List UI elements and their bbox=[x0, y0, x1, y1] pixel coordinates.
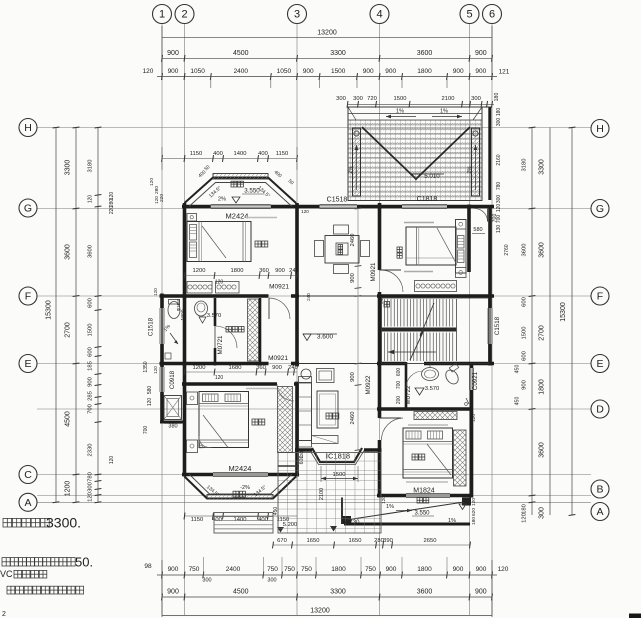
svg-text:180: 180 bbox=[494, 93, 500, 102]
svg-text:1200: 1200 bbox=[193, 268, 206, 274]
svg-text:120: 120 bbox=[381, 496, 386, 504]
svg-text:1%: 1% bbox=[448, 518, 456, 524]
terrace right pillar bbox=[472, 128, 480, 196]
bedroom2 bed bbox=[406, 227, 456, 265]
row axis H bbox=[37, 127, 591, 129]
svg-text:900: 900 bbox=[350, 372, 356, 382]
svg-text:720: 720 bbox=[367, 96, 377, 102]
grid bubble A right bbox=[591, 503, 609, 521]
svg-text:2160: 2160 bbox=[496, 154, 502, 165]
svg-text:1800: 1800 bbox=[231, 268, 244, 274]
grid bubble G left bbox=[19, 199, 37, 217]
bottom bedroom dresser strip bbox=[414, 412, 457, 420]
terrace top band bbox=[348, 113, 482, 115]
hall TV cabinet bbox=[312, 436, 339, 444]
row axis A bbox=[37, 501, 591, 503]
wall row D bbox=[377, 407, 472, 411]
svg-text:900: 900 bbox=[475, 50, 487, 57]
svg-text:3600: 3600 bbox=[417, 50, 433, 57]
svg-text:1650: 1650 bbox=[349, 538, 362, 544]
svg-text:G: G bbox=[596, 203, 604, 215]
svg-text:M2424: M2424 bbox=[226, 212, 249, 221]
row axis C bbox=[37, 474, 591, 476]
svg-text:180: 180 bbox=[471, 517, 477, 525]
bedroom1 nightstand bbox=[187, 214, 197, 222]
svg-text:E: E bbox=[596, 358, 603, 370]
svg-text:900: 900 bbox=[363, 68, 374, 75]
svg-text:900: 900 bbox=[167, 589, 179, 596]
svg-text:M0922: M0922 bbox=[365, 375, 372, 394]
master bed bbox=[199, 392, 249, 448]
column axis 6 bbox=[491, 24, 493, 615]
label canting dining bbox=[338, 245, 343, 250]
svg-text:400: 400 bbox=[213, 151, 223, 157]
door master bedroom arc bbox=[277, 384, 294, 401]
window C1518 on G bbox=[320, 204, 358, 206]
svg-text:120: 120 bbox=[147, 398, 153, 407]
svg-text:3300: 3300 bbox=[330, 589, 346, 596]
svg-text:750: 750 bbox=[284, 566, 295, 573]
note construction note bbox=[7, 586, 15, 594]
wall column 5 region (bedroom2 right) bbox=[467, 205, 471, 273]
svg-text:D: D bbox=[596, 404, 604, 416]
svg-text:900: 900 bbox=[272, 365, 282, 371]
grid bubble D right bbox=[591, 400, 609, 418]
svg-text:400: 400 bbox=[258, 517, 268, 523]
dining chairs bbox=[334, 225, 349, 234]
svg-text:A: A bbox=[24, 497, 31, 509]
svg-text:1350: 1350 bbox=[143, 361, 149, 372]
bottom bed bbox=[403, 428, 453, 478]
note yushuiguan bbox=[14, 570, 22, 578]
svg-text:C1518: C1518 bbox=[148, 317, 155, 336]
svg-text:4500: 4500 bbox=[65, 411, 72, 427]
right dimension tier inner bbox=[531, 128, 533, 516]
svg-text:1500: 1500 bbox=[394, 96, 407, 102]
label zhuwo bedroom2 bbox=[397, 247, 402, 252]
svg-text:120: 120 bbox=[153, 366, 158, 374]
spec line2 bbox=[406, 481, 448, 483]
svg-text:50.: 50. bbox=[75, 555, 93, 570]
entry tiled terrace bbox=[278, 453, 381, 534]
bedroom1 bed bbox=[187, 222, 251, 262]
svg-text:3600: 3600 bbox=[88, 245, 94, 258]
label woshi bedroom1 bbox=[255, 241, 261, 247]
svg-text:4500: 4500 bbox=[233, 50, 249, 57]
svg-text:120: 120 bbox=[149, 178, 155, 186]
svg-text:280: 280 bbox=[154, 186, 160, 194]
column axis 3 bbox=[296, 24, 298, 615]
svg-text:1500: 1500 bbox=[88, 324, 94, 337]
svg-text:900: 900 bbox=[167, 50, 179, 57]
svg-text:450: 450 bbox=[273, 507, 279, 516]
svg-text:1400: 1400 bbox=[234, 517, 247, 523]
grid bubble H right bbox=[591, 120, 609, 138]
svg-text:3.570: 3.570 bbox=[425, 386, 440, 392]
svg-text:300: 300 bbox=[471, 96, 481, 102]
wall column 2 bbox=[183, 203, 187, 298]
svg-text:3300: 3300 bbox=[330, 50, 346, 57]
terrace left pillar bbox=[353, 128, 361, 196]
hall coffee table bbox=[317, 391, 338, 428]
svg-text:900: 900 bbox=[453, 68, 464, 75]
svg-text:-2%: -2% bbox=[240, 485, 250, 491]
grid bubble 3 top bbox=[288, 5, 307, 24]
label yangtai bottom-right bbox=[417, 498, 423, 504]
left dimension tier 15300 bbox=[55, 128, 57, 503]
svg-text:13200: 13200 bbox=[310, 608, 330, 615]
svg-text:900: 900 bbox=[303, 68, 314, 75]
svg-text:1%: 1% bbox=[396, 109, 404, 115]
svg-text:120: 120 bbox=[215, 375, 224, 381]
svg-text:240: 240 bbox=[288, 365, 298, 371]
hall interior dim line bbox=[357, 209, 359, 451]
spec text left of bed bbox=[246, 388, 277, 390]
svg-text:121: 121 bbox=[499, 69, 510, 76]
column axis 2 bbox=[184, 24, 186, 615]
svg-text:750: 750 bbox=[267, 566, 278, 573]
stair handrail bbox=[382, 328, 457, 332]
window M2424 on G bbox=[211, 204, 271, 206]
svg-text:2%: 2% bbox=[218, 197, 226, 203]
wall row B (south bedroom) bbox=[377, 494, 406, 498]
svg-text:600: 600 bbox=[522, 297, 528, 307]
note san ceng ceng gao wei bbox=[3, 518, 12, 527]
svg-text:900: 900 bbox=[475, 68, 486, 75]
label woshi bottom bedroom bbox=[412, 454, 418, 460]
svg-text:120: 120 bbox=[215, 280, 224, 286]
master wardrobe strip bbox=[278, 387, 293, 453]
hall armchair bbox=[317, 369, 335, 383]
svg-text:120: 120 bbox=[522, 513, 528, 523]
row axis B bbox=[37, 495, 591, 497]
svg-text:1800: 1800 bbox=[417, 68, 432, 75]
svg-text:900: 900 bbox=[350, 273, 356, 283]
svg-text:98: 98 bbox=[144, 563, 152, 570]
door M0921 bedroom2 arc bbox=[382, 270, 404, 292]
svg-text:E: E bbox=[24, 358, 31, 370]
door bottom bedroom arc bbox=[382, 418, 404, 440]
svg-text:750: 750 bbox=[301, 566, 312, 573]
bottom balcony outline bbox=[185, 477, 297, 499]
corner mark bottom right bbox=[629, 614, 641, 618]
svg-text:C0918: C0918 bbox=[169, 370, 176, 389]
svg-text:13200: 13200 bbox=[317, 30, 337, 37]
label zhuwo master bedroom bbox=[252, 419, 258, 425]
svg-text:300: 300 bbox=[202, 578, 211, 584]
grid bubble H left bbox=[19, 119, 37, 137]
svg-text:180: 180 bbox=[522, 504, 528, 514]
corridor-south wall y384 bbox=[182, 382, 277, 386]
wall row C (master bedroom south) bbox=[182, 473, 213, 477]
hall south wall bbox=[295, 448, 312, 452]
svg-text:H: H bbox=[596, 123, 604, 135]
top balcony outline bbox=[185, 178, 297, 204]
svg-text:15300: 15300 bbox=[46, 300, 53, 320]
svg-text:M0921: M0921 bbox=[269, 284, 289, 291]
svg-text:180: 180 bbox=[496, 108, 502, 117]
svg-text:3180: 3180 bbox=[522, 159, 528, 172]
grid bubble 4 top bbox=[370, 5, 389, 24]
svg-text:3300: 3300 bbox=[539, 159, 546, 175]
svg-text:3300: 3300 bbox=[65, 160, 72, 176]
svg-text:700: 700 bbox=[396, 381, 402, 390]
wall row G bbox=[182, 205, 211, 209]
bath/closet divider x213 bbox=[214, 298, 217, 326]
bottom-right balcony bbox=[344, 523, 470, 526]
svg-text:2%: 2% bbox=[467, 166, 473, 174]
bedroom2 pillows bbox=[458, 236, 465, 249]
svg-text:300: 300 bbox=[88, 482, 94, 492]
column axis 1 bbox=[161, 24, 163, 615]
door M0921 on F arc bbox=[269, 298, 290, 319]
svg-text:2: 2 bbox=[2, 611, 6, 618]
label yangtai bottom balcony bbox=[233, 491, 239, 497]
stairwell right wall + window C1518 bbox=[488, 296, 492, 308]
svg-text:2100: 2100 bbox=[442, 96, 455, 102]
svg-text:1050: 1050 bbox=[277, 68, 292, 75]
svg-text:130: 130 bbox=[496, 225, 502, 234]
hall sofa bbox=[299, 383, 312, 441]
svg-text:450: 450 bbox=[515, 397, 521, 406]
column axis 4 bbox=[379, 24, 381, 615]
shower tray bbox=[164, 396, 182, 420]
svg-text:900: 900 bbox=[88, 377, 94, 387]
svg-text:M1824: M1824 bbox=[413, 488, 435, 495]
svg-text:2: 2 bbox=[181, 9, 187, 21]
svg-text:15300: 15300 bbox=[560, 302, 567, 322]
svg-text:390: 390 bbox=[383, 538, 393, 544]
svg-text:120: 120 bbox=[154, 196, 159, 204]
svg-text:3600: 3600 bbox=[539, 442, 546, 458]
svg-text:2650: 2650 bbox=[424, 538, 437, 544]
svg-text:F: F bbox=[597, 291, 603, 303]
door hall-corridor in column 3 bbox=[295, 365, 299, 367]
svg-text:4.430: 4.430 bbox=[344, 520, 360, 526]
terrace right wall strip bbox=[488, 107, 491, 200]
bathroom sink bbox=[195, 301, 208, 316]
shower nook south wall bbox=[160, 421, 186, 424]
svg-text:120: 120 bbox=[143, 68, 154, 75]
svg-text:3.570: 3.570 bbox=[207, 313, 222, 319]
svg-text:3600: 3600 bbox=[65, 244, 72, 260]
svg-text:3180: 3180 bbox=[88, 160, 94, 173]
grid bubble F left bbox=[19, 287, 37, 305]
svg-text:900: 900 bbox=[386, 566, 397, 573]
svg-text:300: 300 bbox=[267, 578, 276, 584]
right dimension tier 15300 bbox=[571, 128, 573, 516]
grid bubble 6 top bbox=[483, 5, 502, 24]
svg-text:300: 300 bbox=[496, 195, 502, 204]
svg-text:900: 900 bbox=[476, 566, 487, 573]
wall row F bbox=[160, 294, 269, 298]
svg-text:360: 360 bbox=[259, 268, 269, 274]
svg-text:VC: VC bbox=[0, 569, 13, 579]
svg-text:240: 240 bbox=[379, 296, 384, 304]
svg-text:400: 400 bbox=[258, 151, 268, 157]
bedroom1 interior dim row bbox=[185, 275, 298, 277]
svg-text:300: 300 bbox=[539, 507, 546, 519]
svg-text:1800: 1800 bbox=[417, 566, 432, 573]
svg-text:2700: 2700 bbox=[65, 322, 72, 338]
bath2 toilet bbox=[443, 368, 461, 387]
grid bubble A left bbox=[19, 493, 37, 511]
svg-text:2400: 2400 bbox=[234, 68, 249, 75]
row axis E bbox=[37, 363, 591, 365]
terrace top sub dimension row bbox=[348, 103, 495, 105]
top dimension tier 2 bbox=[162, 57, 492, 59]
entry bay IC1818 bbox=[312, 448, 362, 462]
svg-text:900: 900 bbox=[385, 68, 396, 75]
stair arrow and break bbox=[388, 351, 436, 353]
svg-text:2100: 2100 bbox=[319, 488, 325, 500]
svg-text:185: 185 bbox=[88, 361, 94, 371]
svg-text:900: 900 bbox=[168, 566, 179, 573]
door/window M2424 on C bbox=[213, 472, 268, 474]
svg-text:120: 120 bbox=[471, 498, 477, 506]
svg-text:120: 120 bbox=[301, 209, 309, 214]
svg-text:4500: 4500 bbox=[233, 589, 249, 596]
svg-text:220: 220 bbox=[109, 206, 115, 215]
closet door M0721 bbox=[214, 326, 216, 348]
dining table bbox=[325, 236, 359, 264]
svg-text:H: H bbox=[24, 122, 32, 134]
top dimension tier 3 bbox=[157, 76, 497, 78]
svg-text:1200: 1200 bbox=[193, 365, 206, 371]
svg-text:5: 5 bbox=[466, 9, 472, 21]
svg-text:C0921: C0921 bbox=[472, 371, 479, 390]
closet right divider x260 bbox=[259, 298, 262, 366]
hall level 3.600 bbox=[303, 334, 311, 341]
svg-text:2760: 2760 bbox=[504, 244, 510, 255]
svg-text:600: 600 bbox=[522, 351, 528, 361]
bottom sub dimension row (entry/balcony) bbox=[273, 544, 470, 546]
svg-text:120: 120 bbox=[109, 456, 115, 465]
bottom dimension tier 2 bbox=[157, 574, 497, 576]
svg-text:120: 120 bbox=[299, 451, 304, 459]
svg-text:120: 120 bbox=[88, 195, 94, 204]
svg-text:700: 700 bbox=[143, 426, 149, 435]
corridor dim row bbox=[185, 371, 298, 373]
svg-text:B: B bbox=[596, 484, 603, 496]
svg-text:1150: 1150 bbox=[190, 151, 202, 157]
svg-text:Φ1150: Φ1150 bbox=[176, 298, 181, 311]
svg-text:4: 4 bbox=[376, 9, 382, 21]
terrace level 5.010 bbox=[412, 174, 420, 180]
svg-text:900: 900 bbox=[475, 589, 487, 596]
svg-text:2700: 2700 bbox=[539, 325, 546, 341]
svg-text:1800: 1800 bbox=[539, 379, 546, 395]
svg-text:120: 120 bbox=[88, 492, 94, 502]
bath2 sink bbox=[422, 368, 439, 381]
grid bubble F right bbox=[591, 287, 609, 305]
svg-text:3.550: 3.550 bbox=[414, 511, 430, 517]
svg-text:G: G bbox=[24, 203, 32, 215]
bedroom2 spec line lower bbox=[404, 271, 433, 273]
svg-text:1150: 1150 bbox=[276, 151, 288, 157]
svg-text:2%: 2% bbox=[348, 166, 354, 174]
label xia (down) bbox=[384, 302, 390, 308]
grid bubble E right bbox=[591, 355, 609, 373]
svg-text:120: 120 bbox=[469, 486, 474, 494]
svg-text:900: 900 bbox=[522, 380, 528, 390]
svg-text:450: 450 bbox=[515, 365, 521, 374]
svg-text:1500: 1500 bbox=[522, 327, 528, 340]
svg-text:600: 600 bbox=[88, 298, 94, 308]
svg-text:C: C bbox=[24, 469, 32, 481]
svg-text:700: 700 bbox=[492, 214, 498, 223]
svg-text:F: F bbox=[25, 291, 31, 303]
svg-text:600: 600 bbox=[88, 347, 94, 357]
top balcony dim row bbox=[162, 158, 297, 160]
svg-text:3600: 3600 bbox=[522, 244, 528, 257]
svg-text:220: 220 bbox=[159, 194, 165, 202]
grid bubble B right bbox=[591, 480, 609, 498]
hall round table bbox=[301, 369, 311, 379]
svg-text:3.600: 3.600 bbox=[317, 334, 334, 341]
svg-text:1650: 1650 bbox=[307, 538, 320, 544]
svg-text:620: 620 bbox=[471, 508, 477, 516]
left dimension tier 2 bbox=[75, 128, 77, 503]
master nightstands bbox=[187, 392, 198, 405]
left dimension tier 3 bbox=[97, 128, 99, 503]
svg-text:3300.: 3300. bbox=[46, 515, 81, 531]
top dimension tier 13200 bbox=[162, 37, 492, 39]
svg-text:1500: 1500 bbox=[331, 68, 346, 75]
niche door arc top-right bbox=[475, 209, 488, 222]
bedroom2 nightstands bbox=[456, 220, 467, 230]
svg-text:700: 700 bbox=[88, 404, 94, 414]
wall column 3 bbox=[295, 203, 299, 366]
bathroom toilet bbox=[168, 302, 180, 319]
svg-text:M0921: M0921 bbox=[370, 262, 377, 281]
svg-text:380: 380 bbox=[168, 424, 177, 430]
wall right exterior x492 G-F bbox=[488, 207, 492, 297]
svg-text:C1518: C1518 bbox=[327, 197, 348, 204]
svg-text:1400: 1400 bbox=[234, 151, 247, 157]
svg-text:3600: 3600 bbox=[539, 242, 546, 258]
terrace 1% slope arrows bbox=[386, 116, 416, 118]
grid bubble C left bbox=[19, 466, 37, 484]
svg-text:750: 750 bbox=[365, 566, 376, 573]
svg-text:780: 780 bbox=[496, 182, 502, 191]
grid bubble 1 top bbox=[153, 5, 172, 24]
svg-text:3: 3 bbox=[294, 9, 300, 21]
svg-text:900: 900 bbox=[275, 268, 285, 274]
svg-text:780: 780 bbox=[88, 472, 94, 482]
staircase bbox=[382, 298, 489, 364]
grid bubble G right bbox=[591, 200, 609, 218]
entry steps left bbox=[214, 513, 273, 534]
svg-text:1500: 1500 bbox=[333, 472, 346, 478]
svg-text:600: 600 bbox=[396, 368, 402, 377]
label yimaojian closet bbox=[226, 327, 232, 333]
bedroom2 headboard bbox=[456, 220, 467, 274]
label xiaoting hall bbox=[326, 413, 332, 419]
svg-text:120: 120 bbox=[498, 566, 509, 573]
svg-text:1050: 1050 bbox=[190, 68, 205, 75]
svg-text:A: A bbox=[596, 506, 603, 518]
svg-text:M0921: M0921 bbox=[268, 355, 288, 362]
svg-text:1200: 1200 bbox=[65, 481, 72, 497]
svg-text:200: 200 bbox=[396, 396, 402, 405]
window C1818 on G bbox=[402, 204, 447, 206]
svg-text:750: 750 bbox=[189, 566, 200, 573]
bedroom2 blanket diagonal bbox=[437, 228, 456, 263]
wall row E bbox=[160, 362, 269, 366]
svg-text:120: 120 bbox=[471, 414, 477, 422]
svg-text:3600: 3600 bbox=[417, 589, 433, 596]
